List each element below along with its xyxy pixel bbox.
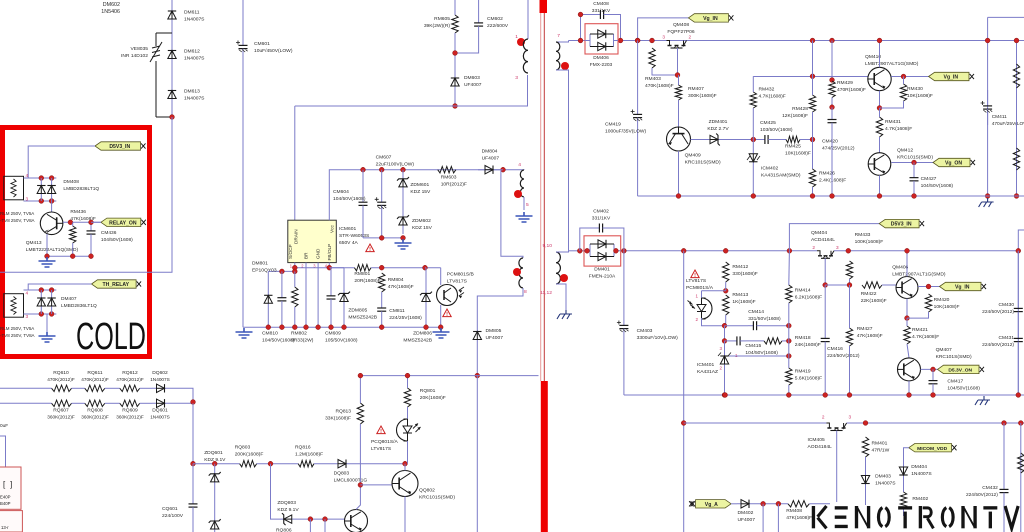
wire rm407 bot [678, 100, 680, 127]
capacitor CM402 331/1KV [594, 227, 599, 229]
resistor RM408 47K [788, 501, 809, 507]
transformer core line right [543, 12, 545, 381]
svg-text:224/50V(2012): 224/50V(2012) [827, 353, 860, 359]
junction cold rail b [89, 254, 94, 259]
svg-text:RM401: RM401 [872, 441, 888, 447]
svg-text:ICM401: ICM401 [697, 362, 714, 368]
junction dm408 b1 [39, 199, 44, 204]
junction rm401 top [863, 421, 868, 426]
wire sec2 bottom lead [556, 284, 566, 310]
svg-text:1000uF/35V(LOW): 1000uF/35V(LOW) [605, 129, 647, 135]
capacitor CM420 474/25V [831, 107, 833, 119]
junction cold rail c [45, 254, 50, 259]
wire icm405 gate [836, 431, 838, 503]
svg-text:Vg_ON: Vg_ON [945, 161, 962, 167]
svg-text:ZDM601: ZDM601 [410, 182, 429, 188]
svg-text:ACD4164L: ACD4164L [811, 237, 835, 243]
resistor RM425 10K [786, 136, 800, 142]
diode ZDM805 MMSZ5242B [343, 268, 345, 328]
warning mark pcq801 warning [377, 426, 385, 434]
wire cm609 top [329, 267, 331, 269]
svg-text:RLM 250V, TV5A: RLM 250V, TV5A [0, 211, 34, 216]
wire sec top bus [569, 40, 586, 42]
junction rm430 top [901, 74, 906, 79]
wire fb bus [360, 375, 538, 377]
resistor RQ609 360K [120, 400, 140, 406]
svg-text:222/600V: 222/600V [487, 23, 509, 29]
net flag TH_RELAY [92, 280, 137, 288]
svg-text:104/50V(1608): 104/50V(1608) [745, 350, 778, 356]
svg-text:KDZ 9.1V: KDZ 9.1V [277, 507, 299, 513]
junction rm425 node [810, 137, 815, 142]
ground cold ground 2 [39, 332, 56, 342]
wire cm408 loop2 [608, 15, 621, 41]
svg-text:CM408: CM408 [593, 1, 609, 7]
resistor R right bot [1013, 148, 1019, 170]
resistor RM426 2.4K [809, 169, 815, 187]
warning mark ICM601 warning [366, 244, 374, 252]
svg-text:13-r: 13-r [1, 525, 9, 530]
wire qm407 emit [908, 381, 910, 395]
svg-text:2.4K(1608)F: 2.4K(1608)F [819, 178, 846, 184]
resistor RM422 22K [862, 282, 882, 288]
svg-text:DQ803: DQ803 [334, 471, 350, 477]
wire rq801 bot [407, 407, 409, 419]
junction qm407 gnd [907, 393, 912, 398]
polarity dot secondary 9-11 phase dot [560, 274, 568, 282]
wire dm403 b [865, 487, 867, 505]
svg-text:ZDM806: ZDM806 [413, 331, 432, 337]
resistor R right low [1018, 453, 1024, 473]
wire qm409 emit [678, 151, 680, 196]
svg-text:224/100V: 224/100V [162, 513, 184, 519]
wire fb pin wire [294, 263, 296, 272]
wire rq row2 w5 [169, 402, 193, 404]
resistor RQ611 470K [85, 385, 105, 391]
resistor RQ816 1.2M [298, 461, 314, 467]
svg-text:12K(1608)F: 12K(1608)F [782, 113, 808, 119]
net flag Vg_A [696, 500, 732, 508]
wire vga w3 [809, 503, 830, 505]
svg-text:474/25V(2012): 474/25V(2012) [822, 146, 855, 152]
diode DM403 1N4007S [865, 472, 867, 487]
svg-text:RLM 250V, TV5A: RLM 250V, TV5A [0, 326, 34, 331]
wire col788 b [788, 303, 790, 368]
junction snubber node [453, 51, 458, 56]
svg-text:104/50V(1608): 104/50V(1608) [101, 237, 133, 243]
wire rq row2 w2 [72, 402, 85, 404]
resistor RM407 300K [675, 85, 681, 100]
diode DM406b [590, 46, 614, 48]
watermark KENOTRONTV [812, 506, 816, 528]
svg-text:224/25V(1608): 224/25V(1608) [389, 315, 422, 321]
svg-text:RELAY_ON: RELAY_ON [109, 220, 137, 226]
svg-text:LMBT2907ALT1G(SMD): LMBT2907ALT1G(SMD) [865, 61, 919, 67]
junction dm408 t1 [39, 176, 44, 181]
diode DM603 UF4007 [454, 75, 456, 89]
capacitor CM416 224/50V [824, 285, 826, 338]
svg-text:UF4007: UF4007 [464, 82, 482, 88]
svg-text:RQ610: RQ610 [53, 370, 69, 376]
svg-text:470K(2012)F: 470K(2012)F [116, 377, 144, 382]
wire rm403 bot [652, 68, 679, 75]
polarity dot primary aux2 phase dot [513, 268, 521, 276]
capacitor CM810 104/50V [281, 271, 283, 297]
junction dm401 b [585, 248, 590, 253]
COLD primary-side box [3, 128, 150, 357]
svg-text:KA431AZ: KA431AZ [697, 369, 718, 375]
svg-text:360K(2012)F: 360K(2012)F [116, 415, 144, 420]
wire col832 b [831, 98, 833, 108]
junction gnd rail g [342, 325, 347, 330]
junction cm414 rowd [786, 323, 791, 328]
wire rm401 b [865, 457, 867, 472]
junction col788 gnd [786, 393, 791, 398]
wire qm408 gate [677, 48, 679, 75]
svg-text:RM425: RM425 [785, 144, 801, 150]
svg-text:INR 14D102: INR 14D102 [121, 53, 148, 59]
svg-text:CM403: CM403 [637, 328, 653, 334]
svg-text:DQ602: DQ602 [152, 370, 168, 376]
svg-text:RQ816: RQ816 [295, 445, 311, 451]
wire col683 [683, 251, 685, 532]
junction vcc rail a [379, 236, 384, 241]
svg-text:331/1KV: 331/1KV [592, 8, 611, 14]
junction rc2 a [1014, 38, 1019, 43]
wire fbolp pin wire [328, 263, 330, 268]
diode DM408a [40, 178, 42, 201]
winding secondary 9-11 [556, 252, 560, 284]
svg-text:Vg_IN: Vg_IN [955, 285, 970, 291]
wire col788 [788, 251, 791, 285]
svg-text:PCM801S/B: PCM801S/B [447, 272, 475, 278]
svg-text:224/50V(2012): 224/50V(2012) [966, 492, 998, 498]
svg-text:DM406: DM406 [593, 55, 609, 61]
capacitor CM427 104/50V [913, 163, 915, 178]
svg-text:DM801: DM801 [252, 261, 268, 267]
svg-text:4: 4 [26, 173, 29, 178]
svg-text:LTV817S: LTV817S [371, 446, 392, 452]
wire rm427 a [849, 285, 851, 328]
transistor QM412 KRC101S [868, 153, 891, 176]
ground aux winding ground [516, 212, 533, 222]
junction row3 c [268, 461, 273, 466]
wire primary pin1 lead [527, 0, 529, 39]
junction fb bus node [475, 373, 480, 378]
diode DM407a [40, 290, 42, 314]
junction col832 top [830, 38, 835, 43]
wire bulk cap column bottom [242, 52, 244, 327]
wire dm404 b [903, 478, 905, 492]
junction gnd rail d [304, 325, 309, 330]
wire d5v3 wire [28, 146, 95, 178]
junction dm407 b1 [39, 312, 44, 317]
junction RM804 top [379, 265, 384, 270]
svg-text:3: 3 [515, 75, 518, 81]
svg-text:KDZ 15V: KDZ 15V [412, 225, 433, 231]
transistor QQ801 [345, 510, 368, 532]
wire qm413 emit [46, 234, 48, 256]
wire br pin wire [305, 263, 307, 328]
svg-text:UF4007: UF4007 [738, 517, 756, 523]
wire icm401 ref [729, 355, 789, 357]
junction gnd rail h [379, 325, 384, 330]
wire row3 wire [193, 463, 240, 465]
resistor RM603 10R [438, 167, 456, 173]
svg-text:E40P: E40P [0, 495, 11, 500]
svg-text:DM603: DM603 [464, 75, 480, 81]
wire d5v3 riser [789, 224, 879, 251]
svg-text:CM416: CM416 [827, 346, 843, 352]
svg-text:PCQ801S/A: PCQ801S/A [371, 439, 398, 445]
svg-text:DM602: DM602 [103, 2, 120, 8]
net flag MICOM_VDD [909, 444, 952, 452]
wire row4 colb [324, 519, 326, 532]
junction vg rail b [810, 194, 815, 199]
svg-text:7: 7 [557, 33, 560, 39]
wire vga w2 [753, 503, 788, 505]
svg-text:RM420: RM420 [934, 297, 950, 303]
wire rq813 bot [359, 424, 361, 485]
ground bulk ground [236, 328, 253, 338]
wire bulk cap column top [242, 0, 244, 42]
junction pin fbolp foot [327, 265, 332, 270]
svg-text:DM403: DM403 [875, 474, 891, 480]
resistor RQ801 20K [404, 388, 410, 407]
wire qm406 emit [906, 251, 908, 277]
resistor RQ607 360K [52, 400, 72, 406]
svg-text:RM432: RM432 [759, 87, 775, 93]
junction d5v3 riser d [787, 248, 792, 253]
wire Vcc bus [363, 169, 503, 171]
svg-text:-TV8 250V, TV8A: -TV8 250V, TV8A [0, 218, 35, 223]
wire cm419 bot [638, 195, 679, 197]
winding primary aux 4-5 [520, 170, 524, 197]
svg-text:QM409: QM409 [685, 153, 701, 159]
svg-text:RM422: RM422 [861, 291, 877, 297]
connector CN801 box [0, 467, 21, 509]
wire relay2 bot rail [24, 313, 57, 315]
svg-text:104/50V(1608): 104/50V(1608) [333, 196, 366, 202]
capacitor CM411 470uF/25V [987, 90, 989, 106]
isolation barrier bar top [540, 0, 548, 13]
svg-text:KA431SAM(SMD): KA431SAM(SMD) [761, 173, 801, 179]
junction col832 mid [830, 105, 835, 110]
wire aux2 feed [501, 169, 503, 171]
svg-text:ZDQ803: ZDQ803 [277, 500, 296, 506]
svg-text:RM433: RM433 [855, 232, 871, 238]
transistor QM407 KRC101S [898, 358, 921, 381]
wire dm401 stubs [584, 244, 621, 257]
junction vg rail e [912, 194, 917, 199]
svg-text:!: ! [369, 247, 371, 253]
wire icm401 gnd [724, 368, 726, 395]
junction zener top [401, 167, 406, 172]
svg-text:QM413: QM413 [26, 240, 42, 246]
svg-text:ZDM805: ZDM805 [348, 308, 367, 314]
resistor RM421 4.7K [904, 326, 910, 344]
wire rm436 top [72, 222, 74, 226]
svg-text:1: 1 [515, 34, 518, 40]
svg-text:CM414: CM414 [748, 309, 764, 315]
svg-text:ZDM602: ZDM602 [412, 218, 431, 224]
chassis ground secondary winding ground [557, 310, 572, 319]
svg-text:DM612: DM612 [184, 49, 200, 55]
wire rq row2 wire [0, 402, 52, 404]
junction gnd rail i [424, 325, 429, 330]
diode DM407b [51, 290, 53, 314]
svg-text:1N4007S: 1N4007S [184, 17, 205, 23]
svg-text:650V 4A: 650V 4A [339, 240, 359, 246]
svg-text:0uF: 0uF [0, 423, 8, 428]
svg-text:3: 3 [662, 35, 665, 40]
svg-text:QM407: QM407 [936, 347, 952, 353]
svg-text:ICM601: ICM601 [339, 226, 356, 232]
diode DM401a [590, 243, 614, 245]
svg-text:RM412: RM412 [732, 264, 748, 270]
svg-text:CM417: CM417 [947, 379, 963, 385]
junction rm403 top [650, 38, 655, 43]
svg-text:FMX-2203: FMX-2203 [590, 62, 613, 68]
diode ZDQ803 KDZ9.1V [279, 518, 297, 520]
optocoupler PCM801S/B LTV817S [437, 285, 458, 306]
junction cm419 top [635, 38, 640, 43]
transistor QM409 KRC101S [667, 127, 691, 151]
junction zdm401 node [751, 137, 756, 142]
junction rm433 node [847, 283, 852, 288]
diode DM801 EP10QY03 [267, 271, 269, 327]
wire rq column [192, 403, 194, 463]
wire rq813 top [359, 376, 361, 403]
svg-text:RM603: RM603 [441, 175, 457, 181]
junction qm406 colld [905, 316, 910, 321]
svg-text:RQ806: RQ806 [276, 528, 292, 532]
junction vg rail d [877, 194, 882, 199]
wire qq802 coll [404, 464, 406, 471]
junction row4 b [323, 517, 328, 522]
svg-text:QM408: QM408 [673, 22, 689, 28]
junction vgin riser [635, 38, 640, 43]
svg-text:4: 4 [26, 291, 29, 296]
resistor RM605 39K2W [452, 15, 458, 33]
wire qq801 coll [356, 485, 360, 510]
isolation barrier bar bottom [541, 381, 548, 532]
svg-text:ZDQ601: ZDQ601 [204, 450, 223, 456]
wire col812 a [812, 41, 814, 96]
svg-text:1N5406: 1N5406 [101, 9, 120, 15]
svg-text:4: 4 [518, 162, 521, 168]
wire col832 c [831, 135, 833, 196]
junction gnd rail a [266, 325, 271, 330]
junction dm801 bus b [292, 269, 297, 274]
capacitor CM430 224/50V [1017, 251, 1019, 309]
wire right col top [988, 16, 1024, 18]
mosfet ICM405 AOD4184L [826, 423, 846, 428]
wire qm404 gate [824, 258, 826, 285]
wire cold gnd rail [47, 255, 91, 257]
svg-text:TH_RELAY: TH_RELAY [103, 282, 130, 288]
junction dm407 b2 [49, 312, 54, 317]
junction cm408 c [578, 12, 583, 17]
chassis ground vg ground [979, 198, 994, 207]
wire qm412 emit [879, 175, 881, 196]
svg-text:RM429: RM429 [837, 80, 853, 86]
svg-text:RM802: RM802 [291, 331, 307, 337]
wire cm415 row b [746, 340, 764, 342]
svg-text:MICOM_VDD: MICOM_VDD [917, 446, 947, 452]
svg-text:QQ802: QQ802 [419, 488, 435, 494]
svg-text:COLD: COLD [76, 316, 146, 358]
wire sw bus b [847, 422, 1024, 424]
relay RL402 coil [4, 294, 24, 318]
svg-text:ICM405: ICM405 [808, 437, 825, 443]
wire Vcc riser [329, 170, 363, 221]
svg-text:BR: BR [304, 252, 309, 259]
diode ZDM601 KDZ15V [402, 170, 404, 196]
junction col812 top [810, 38, 815, 43]
wire qq802 emit [404, 497, 406, 532]
wire vga w1 [731, 503, 737, 505]
diode ZDM806 MMSZ5242B [425, 268, 427, 328]
junction rq813 topd [358, 373, 363, 378]
wire aux pin5 lead [523, 197, 525, 210]
wire rq row2 w3 [105, 402, 120, 404]
junction cm415 left [722, 339, 727, 344]
wire fb bus h [295, 267, 355, 269]
svg-text:CM411: CM411 [992, 114, 1007, 120]
wire DM801 top bus [268, 270, 295, 272]
wire opto fb bottom [440, 305, 442, 327]
svg-text:DM404: DM404 [911, 464, 927, 470]
wire rq row1 wire [0, 387, 52, 389]
svg-text:EP10QY03: EP10QY03 [252, 268, 277, 274]
junction qm406 top [905, 248, 910, 253]
svg-text:CM431: CM431 [998, 335, 1014, 341]
svg-text:RM418: RM418 [795, 335, 811, 341]
svg-text:QM412: QM412 [897, 148, 913, 154]
junction row4 a [308, 517, 313, 522]
svg-text:RM801: RM801 [354, 271, 370, 277]
svg-text:3: 3 [836, 245, 839, 250]
resistor RQ813 33K [357, 403, 363, 424]
varistor VE8035 [156, 33, 172, 117]
svg-text:1N4007S: 1N4007S [875, 481, 896, 487]
net flag D5.3V_ON [938, 365, 980, 373]
net flag Vg_IN [688, 14, 728, 22]
wire cm402 loop b [608, 228, 624, 251]
wire snubber C to node [455, 29, 479, 53]
svg-text:RM431: RM431 [885, 119, 901, 125]
svg-text:24K(1608)F: 24K(1608)F [795, 342, 821, 348]
junction rm432 linkd [810, 74, 815, 79]
diode DM805 UF4007 [476, 329, 478, 342]
junction col683 bus3 [681, 421, 686, 426]
svg-text:RM419: RM419 [795, 369, 811, 375]
ground cold ground 1 [39, 257, 56, 267]
diode ICM401 KA431AZ [724, 352, 726, 368]
svg-text:CM425: CM425 [760, 120, 776, 126]
svg-text:DRAIN: DRAIN [294, 229, 299, 244]
svg-text:300K(1608)F: 300K(1608)F [688, 93, 717, 99]
svg-text:Vg_A: Vg_A [705, 502, 718, 508]
wire row3 w2 [257, 463, 299, 465]
dual diode DM401 box [584, 236, 621, 266]
wire col812 b [812, 112, 814, 169]
junction rm412 bot [723, 288, 728, 293]
wire micom wire [904, 448, 909, 464]
svg-text:VE8035: VE8035 [131, 46, 149, 52]
svg-text:33K(1608)F: 33K(1608)F [325, 416, 351, 422]
